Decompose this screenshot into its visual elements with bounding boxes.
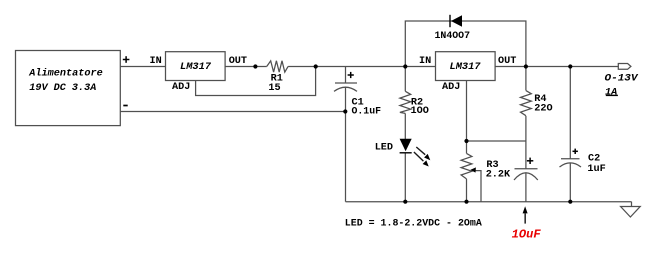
diode D1 1N4007 xyxy=(449,15,462,27)
svg-text:C2: C2 xyxy=(588,154,600,165)
wire ADJ2 down xyxy=(466,81,468,154)
svg-text:Alimentatore: Alimentatore xyxy=(28,68,103,80)
svg-text:1uF: 1uF xyxy=(587,164,605,175)
node dot OUT2 diode R4 xyxy=(524,64,528,68)
10uF pointer arrow xyxy=(523,206,528,223)
svg-text:1N4OO7: 1N4OO7 xyxy=(435,31,471,42)
wire diode loop xyxy=(405,21,526,67)
node dot C2 top xyxy=(568,64,572,68)
wire ADJ2 node to R4 bottom xyxy=(467,140,526,142)
svg-text:LED = 1.8-2.2VDC - 2OmA: LED = 1.8-2.2VDC - 2OmA xyxy=(345,219,483,230)
svg-text:15: 15 xyxy=(268,83,280,94)
svg-text:IN: IN xyxy=(419,56,431,67)
node dot ADJ2 R4 junction xyxy=(464,139,468,143)
wire ADJ1 feedback xyxy=(196,67,316,96)
output terminal connector xyxy=(618,64,631,70)
wire R2 branch top xyxy=(404,67,406,92)
svg-text:1A: 1A xyxy=(605,87,617,98)
LED light arrow 1 xyxy=(416,147,430,160)
wire OUT1 to R1 xyxy=(225,66,267,68)
capacitor C2 branch wire xyxy=(569,67,571,159)
capacitor C2 xyxy=(560,159,582,202)
wire LED cathode to rail xyxy=(404,153,406,202)
wire R3 wiper to rail xyxy=(475,171,481,202)
wire OUT2 to output xyxy=(495,66,618,68)
resistor R3 xyxy=(461,153,472,179)
node dot C1 minus rail xyxy=(343,109,347,113)
label 1A output xyxy=(605,87,618,98)
capacitor C1 xyxy=(334,67,357,112)
svg-text:1OuF: 1OuF xyxy=(512,228,542,242)
wire minus rail xyxy=(120,111,345,113)
svg-text:19V DC 3.3A: 19V DC 3.3A xyxy=(29,83,96,94)
node dot rail R2 diode xyxy=(403,64,407,68)
svg-text:IN: IN xyxy=(150,56,162,67)
regulator IC U2 LM317 box xyxy=(436,52,496,81)
power supply box Alimentatore xyxy=(16,51,121,126)
wire R3 bottom xyxy=(466,179,468,202)
resistor R2 xyxy=(400,91,411,113)
svg-text:2.2K: 2.2K xyxy=(486,169,511,180)
svg-text:OUT: OUT xyxy=(229,56,247,67)
LED diode symbol xyxy=(400,139,412,154)
svg-text:1OO: 1OO xyxy=(411,106,429,117)
svg-text:LED: LED xyxy=(375,143,393,154)
wire R2 to LED xyxy=(404,113,406,139)
resistor R4 xyxy=(521,91,532,116)
node dot C2 ground xyxy=(568,200,572,204)
svg-text:LM317: LM317 xyxy=(180,62,212,73)
LED light arrow 2 xyxy=(414,152,429,167)
svg-text:O.1uF: O.1uF xyxy=(352,106,382,117)
wire R4 branch top xyxy=(525,67,527,91)
wire R4 to 10uF cap xyxy=(525,116,527,169)
svg-text:ADJ: ADJ xyxy=(442,82,460,93)
resistor R1 xyxy=(267,61,288,72)
svg-text:22O: 22O xyxy=(534,104,552,115)
wire C1 bottom to ground rail xyxy=(345,112,347,202)
node dot R3 ground xyxy=(464,200,468,204)
wire plus terminal to IN xyxy=(120,66,165,68)
regulator IC U1 LM317 box xyxy=(166,52,226,81)
wire bottom ground rail xyxy=(346,201,632,203)
svg-text:O-13V: O-13V xyxy=(605,74,639,85)
plus sign 10uF xyxy=(527,158,533,164)
plus sign C2 xyxy=(573,149,578,154)
R3 wiper arrowhead xyxy=(470,167,476,172)
svg-text:LM317: LM317 xyxy=(450,62,482,73)
svg-text:ADJ: ADJ xyxy=(172,82,190,93)
svg-text:OUT: OUT xyxy=(498,56,516,67)
ground xyxy=(621,202,641,217)
plus sign C1 xyxy=(348,72,354,78)
minus sign power box xyxy=(123,105,127,107)
node dot OUT1 xyxy=(253,64,257,68)
node dot R1 right ADJ1 xyxy=(314,64,318,68)
capacitor 10uF xyxy=(514,169,538,202)
node dot LED ground xyxy=(403,200,407,204)
wire R1 to IN2 xyxy=(288,66,435,68)
plus sign power box xyxy=(123,56,130,63)
